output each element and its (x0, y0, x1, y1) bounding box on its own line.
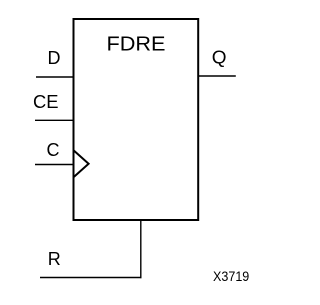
svg-text:C: C (47, 140, 60, 160)
svg-text:Q: Q (212, 48, 227, 68)
wire pin R horizontal (40, 277, 142, 279)
wire pin Q (198, 75, 236, 77)
clock edge triangle on pin C (74, 150, 89, 177)
svg-text:X3719: X3719 (213, 269, 249, 284)
svg-text:FDRE: FDRE (107, 34, 166, 56)
wire pin CE (35, 119, 74, 121)
svg-text:R: R (48, 249, 61, 269)
wire pin R vertical to box (140, 220, 142, 278)
svg-text:D: D (48, 48, 61, 68)
wire pin C (35, 164, 74, 166)
flip-flop body U1 (FDRE) (74, 19, 199, 220)
svg-text:CE: CE (33, 92, 59, 112)
wire pin D (36, 76, 74, 78)
